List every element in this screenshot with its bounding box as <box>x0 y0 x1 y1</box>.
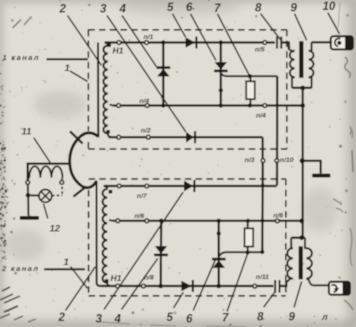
scan artifact: top-left pencil marks <box>13 17 32 29</box>
ink blob at п/7 crossing <box>261 184 264 187</box>
svg-text:1 канал: 1 канал <box>3 53 40 62</box>
winding polarity dot top <box>107 43 111 47</box>
callout line 1 (top) <box>70 71 88 82</box>
terminal п/4 <box>145 104 149 108</box>
terminal п/6 (right contact) <box>275 219 279 223</box>
svg-text:5: 5 <box>167 2 174 14</box>
capacitor C1 (8) <box>276 37 278 49</box>
indicator lamp HL (12) <box>39 190 52 203</box>
svg-text:10: 10 <box>323 1 336 13</box>
resistor R2 (7) <box>247 221 249 229</box>
callout line 2 (bottom) <box>66 267 96 311</box>
winding mid tap to п/6 rail <box>109 219 113 222</box>
svg-text:11: 11 <box>22 127 32 138</box>
svg-text:п/4: п/4 <box>256 112 266 119</box>
diode VD8 (5) on п/8 rail <box>181 281 191 292</box>
bias vertical to п/10 <box>276 76 278 185</box>
connector X2 (10) <box>329 282 350 295</box>
diode VD4 (3) on п/2 rail <box>186 132 194 143</box>
winding polarity dot bottom (ch2) <box>105 279 109 283</box>
svg-text:12: 12 <box>50 223 61 234</box>
callout line 3 (bottom) <box>104 192 183 309</box>
svg-text:п/11: п/11 <box>256 274 269 281</box>
terminal п/8 <box>142 284 146 288</box>
bias branch line to resistor/п10 <box>221 74 277 77</box>
svg-text:л: л <box>321 312 328 322</box>
terminal п/6 <box>145 219 149 223</box>
svg-text:п/6: п/6 <box>273 212 283 219</box>
callout line 6 (bottom) <box>193 260 215 310</box>
head gap ray lower-left <box>73 188 84 197</box>
callout line 5 (top) <box>173 14 186 37</box>
winding mid tap to п/4 rail <box>110 105 114 106</box>
callout line 11 <box>34 138 51 163</box>
T1 bottom join <box>292 87 312 89</box>
branch VD2: diode pointing up (4) <box>162 43 164 106</box>
callout line 12 <box>44 204 48 219</box>
junction node <box>26 193 31 198</box>
svg-text:4: 4 <box>119 4 127 16</box>
head gap ray upper-left <box>70 131 83 143</box>
svg-text:6: 6 <box>186 2 193 14</box>
top rail channel 1 <box>105 41 275 43</box>
svg-text:п/10: п/10 <box>280 157 294 164</box>
svg-text:1: 1 <box>64 257 69 268</box>
terminal п/10 <box>275 159 279 163</box>
transformer T1 secondary (right winding) <box>309 51 314 77</box>
svg-text:1: 1 <box>65 63 70 74</box>
node: top rail / diode branch VD2 <box>161 40 165 44</box>
wire T2 secondary to connector <box>309 281 329 285</box>
svg-text:п/3: п/3 <box>245 157 255 164</box>
diode VD1 (5) on top rail <box>186 37 196 48</box>
winding polarity dot bottom <box>106 130 110 134</box>
svg-text:3: 3 <box>96 314 103 326</box>
branch VD3: diode pointing down (6) <box>220 43 222 106</box>
wire: head to channel-1 top rail <box>97 43 99 138</box>
contact circle on top rail <box>117 41 121 45</box>
svg-text:п/5: п/5 <box>255 47 265 54</box>
transformer T1 primary (left winding) <box>289 50 292 51</box>
svg-text:п/7: п/7 <box>137 193 148 200</box>
stray junction node on VD7 branch <box>217 231 221 235</box>
terminal п/11 <box>253 284 257 288</box>
scan artifact: left edge speckle strip <box>0 60 8 260</box>
branch VD6: diode pointing down (4) <box>160 221 163 286</box>
callout line 4 (top) <box>122 16 157 67</box>
terminal п/3 <box>261 159 265 163</box>
lamp right lead (dashed) <box>52 194 62 196</box>
branch VD7: diode pointing up (6) <box>218 221 220 286</box>
callout line 8 (bottom) <box>264 292 275 307</box>
svg-text:7: 7 <box>214 3 221 15</box>
svg-text:3: 3 <box>100 4 107 16</box>
svg-text:2: 2 <box>58 312 66 324</box>
п/4 rail channel 1 <box>113 104 303 106</box>
coupling coil L1 (lamp pickup) <box>29 166 62 177</box>
wire to ground <box>302 161 320 174</box>
wire T1 secondary to connector <box>312 41 331 43</box>
svg-text:п/6: п/6 <box>134 213 144 220</box>
bias branch line (ch2) <box>219 252 262 256</box>
svg-text:8: 8 <box>255 3 262 15</box>
transformer T2 core <box>299 246 303 279</box>
п/8 rail channel 2 <box>101 285 274 287</box>
svg-text:4: 4 <box>114 314 122 326</box>
wire п/3 down to channel2 bias line <box>261 163 264 252</box>
callout line 7 (bottom) <box>227 253 248 311</box>
callout line 6 (top) <box>191 14 216 61</box>
callout line 4 (bottom) <box>122 258 158 309</box>
callout line 5 (bottom) <box>174 292 184 308</box>
node: top rail / diode branch VD3 <box>219 40 223 44</box>
scan artifact: right edge marks <box>333 57 353 310</box>
svg-text:Н1: Н1 <box>111 273 122 283</box>
svg-text:п/2: п/2 <box>141 127 151 134</box>
terminal п/7 <box>145 184 149 188</box>
transformer T2 secondary (right winding) <box>306 248 312 278</box>
callout line 1 (bottom) <box>71 267 88 289</box>
п/2 rail channel 1 <box>109 136 263 138</box>
svg-text:Н1: Н1 <box>113 46 124 56</box>
scan artifact: bottom-left scratches <box>0 287 36 322</box>
svg-text:2: 2 <box>59 4 67 16</box>
п/6 rail channel 2 <box>113 220 302 222</box>
svg-text:2 канал: 2 канал <box>1 264 39 273</box>
channel 1 unit box (dashed) <box>88 30 286 149</box>
terminal circle right of coil <box>60 181 64 185</box>
callout line 9 (top) <box>295 14 307 41</box>
callout line 3 (top) <box>107 16 186 132</box>
callout line 9 (bottom) <box>294 282 302 308</box>
transformer T1 core <box>299 41 303 78</box>
wire junction to ground <box>27 195 29 216</box>
diode VD5 (3) on п/7 rail <box>184 181 193 192</box>
terminal circle left of coil <box>26 181 30 185</box>
main vertical bus <box>302 88 304 238</box>
callout line 8 (top) <box>261 14 281 40</box>
terminal п/2 <box>146 135 150 139</box>
ground symbol (common) <box>312 174 330 178</box>
wire: head to channel-2 bottom rail <box>97 181 101 286</box>
svg-text:7: 7 <box>222 313 229 325</box>
svg-text:5: 5 <box>167 312 174 324</box>
svg-text:п/4: п/4 <box>139 98 149 105</box>
callout line 10 (top) <box>328 13 340 34</box>
terminal п/5 <box>263 41 267 45</box>
terminal п/1 <box>145 41 149 45</box>
winding H1 (channel 1) <box>105 43 108 46</box>
T2 top join <box>291 237 305 239</box>
wire terminal to junction <box>27 184 29 193</box>
svg-text:9: 9 <box>291 3 298 15</box>
ink blob at п/6 crossing <box>261 219 265 223</box>
wire cap to transformer T1 <box>282 43 289 50</box>
svg-text:п/1: п/1 <box>144 34 154 41</box>
resistor R1 (7) <box>248 74 252 78</box>
callout line 7 (top) <box>218 14 250 75</box>
connector X1 (10) <box>331 36 353 49</box>
lamp left lead <box>30 194 39 196</box>
magnetic head body arc <box>70 133 99 188</box>
wire cap to transformer T2 <box>281 282 287 286</box>
head left lead wire <box>28 164 70 181</box>
svg-text:8: 8 <box>257 312 264 324</box>
svg-text:9: 9 <box>289 312 296 324</box>
winding polarity dot top (ch2) <box>109 190 113 194</box>
wire п/2 rail down to п/3 <box>262 137 264 160</box>
stray junction node on VD3 branch <box>219 88 223 92</box>
coil end hooks <box>28 178 63 181</box>
channel 2 unit box (dashed) <box>89 179 286 296</box>
п/7 rail channel 2 <box>104 185 277 187</box>
node on bus at ground takeoff <box>300 158 305 163</box>
svg-text:6: 6 <box>186 314 193 326</box>
callout line 2 (top) <box>68 16 102 66</box>
terminal п/4 (second contact) <box>263 104 267 108</box>
transformer T2 primary (left winding) <box>286 279 289 282</box>
capacitor C2 (8) <box>274 280 276 293</box>
ground symbol (lamp circuit) <box>20 216 39 220</box>
winding H1 (channel 2) <box>104 186 107 189</box>
